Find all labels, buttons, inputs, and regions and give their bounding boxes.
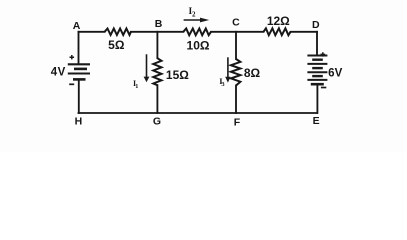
- svg-text:D: D: [312, 19, 320, 31]
- svg-text:F: F: [234, 116, 241, 128]
- svg-text:15Ω: 15Ω: [166, 68, 189, 82]
- svg-text:A: A: [73, 20, 81, 32]
- svg-text:3: 3: [221, 81, 225, 88]
- svg-text:C: C: [232, 17, 240, 29]
- svg-text:12Ω: 12Ω: [267, 14, 290, 28]
- svg-text:G: G: [153, 116, 161, 128]
- svg-text:H: H: [75, 115, 83, 127]
- svg-text:1: 1: [135, 83, 138, 90]
- svg-text:10Ω: 10Ω: [187, 39, 210, 53]
- svg-text:8Ω: 8Ω: [244, 66, 261, 80]
- svg-text:2: 2: [192, 10, 196, 18]
- svg-text:E: E: [313, 115, 320, 127]
- svg-text:V: V: [335, 67, 343, 79]
- svg-text:V: V: [58, 66, 66, 78]
- svg-text:5Ω: 5Ω: [108, 38, 125, 52]
- svg-text:B: B: [155, 18, 163, 30]
- svg-text:6: 6: [328, 67, 334, 79]
